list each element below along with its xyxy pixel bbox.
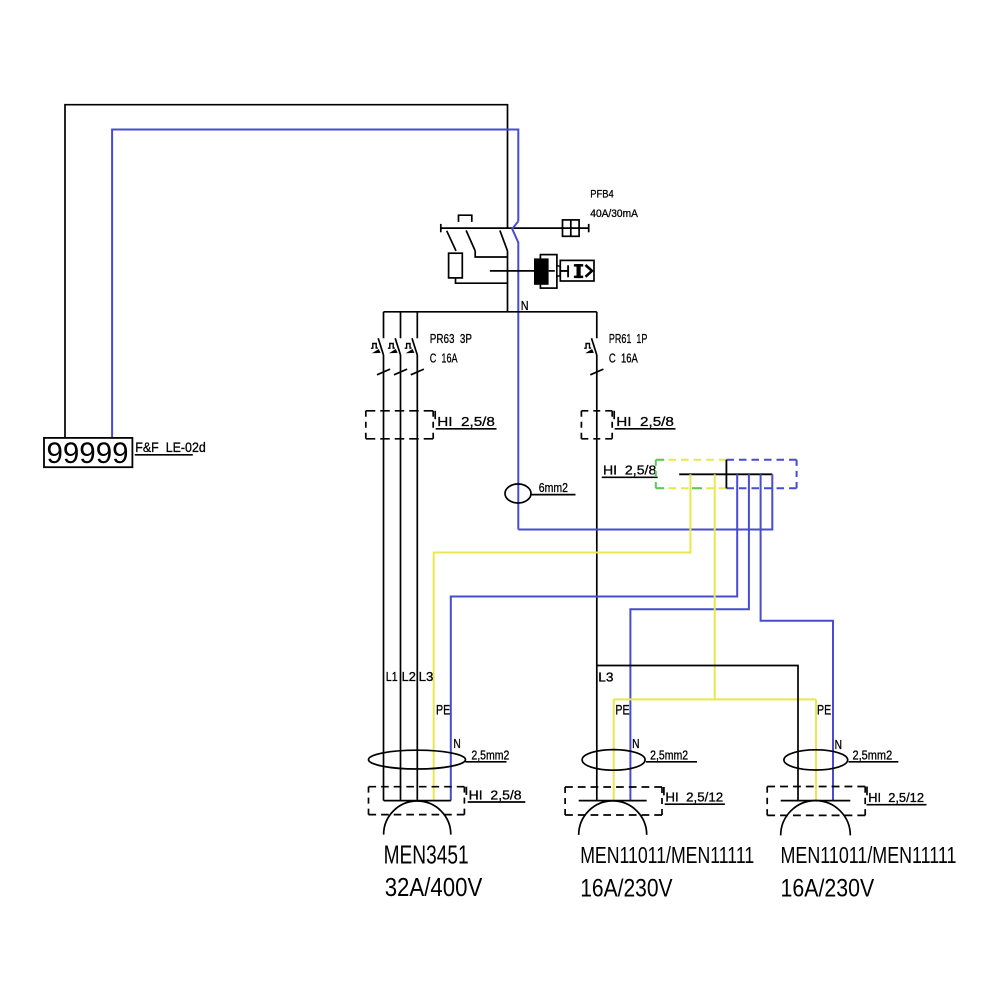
svg-text:MEN3451: MEN3451	[384, 839, 469, 869]
RCD L pole contact blade	[500, 230, 508, 251]
RCD Q1 linkage bar	[441, 227, 589, 229]
wire N to socket X6 (blue)	[630, 474, 749, 800]
breaker PR63 3P pole L3	[416, 312, 418, 339]
terminal strip X1 tick	[434, 411, 436, 419]
svg-text:PFB4: PFB4	[590, 188, 613, 200]
svg-text:HI 2,5/8: HI 2,5/8	[437, 414, 495, 429]
terminal strip busbar	[679, 473, 772, 475]
RCD test contact blade	[447, 231, 456, 251]
label HI 2,5/8 (X5) underline	[468, 801, 526, 803]
svg-text:16A/230V: 16A/230V	[580, 874, 673, 902]
RCD test resistor R	[449, 253, 463, 278]
cable marker 6mm2 ellipse	[505, 484, 531, 503]
svg-text:MEN11011/MEN11111: MEN11011/MEN11111	[781, 842, 957, 868]
RCD trip relay I> box	[560, 260, 594, 281]
label HI 2,5/8 (X2) underline	[615, 428, 676, 430]
cable marker 2,5mm2 ellipse (X7)	[784, 750, 848, 770]
svg-text:HI 2,5/12: HI 2,5/12	[665, 790, 723, 805]
wire L supply (meter to RCD, black)	[65, 105, 508, 438]
breaker PR63 3P pole L2	[400, 312, 402, 339]
wire distribution bus	[384, 311, 597, 313]
svg-text:C 16A: C 16A	[609, 351, 638, 366]
RCD test button bracket	[459, 215, 472, 222]
socket X6 terminal line	[579, 800, 647, 802]
terminal strip X2 tick	[613, 411, 615, 419]
wire CT to relay	[549, 270, 555, 272]
label 6mm2 leader underline	[531, 494, 576, 496]
wire PE to socket X5 (yellow)	[434, 474, 691, 800]
svg-text:F&F LE-02d: F&F LE-02d	[135, 439, 206, 455]
svg-text:N: N	[835, 737, 842, 752]
svg-text:HI 2,5/8: HI 2,5/8	[469, 787, 522, 802]
wire RCD L pole output	[507, 251, 509, 312]
svg-text:2,5mm2: 2,5mm2	[853, 748, 893, 763]
wire PE drop to socket X6 (yellow)	[613, 699, 615, 800]
socket X7 dashed box	[767, 786, 865, 788]
socket X7 tick	[866, 787, 868, 796]
wire N main to X4 (blue)	[518, 474, 772, 529]
RCD trip relay input tick	[560, 265, 568, 277]
RCD current transformer frame	[540, 255, 557, 289]
terminal strip X2 dashed box	[581, 410, 612, 412]
wire PE feed to sockets X6-X7 (yellow)	[714, 474, 716, 699]
energy meter P1 F&F LE-02d box	[44, 438, 132, 467]
wire PE drop to socket X7 (yellow)	[815, 699, 817, 800]
cable marker 2,5mm2 ellipse (X5)	[369, 750, 466, 769]
RCD trip relay > glyph	[586, 265, 593, 277]
RCD linkage bar left tick	[440, 224, 442, 232]
svg-text:PE: PE	[817, 703, 831, 718]
svg-text:N: N	[632, 736, 639, 751]
wire N to socket X5 (blue)	[451, 474, 737, 800]
wire L3 branch to socket X7	[597, 666, 798, 801]
wire to RCD current transformer	[490, 270, 534, 272]
socket X7 terminal line	[781, 800, 851, 802]
svg-text:HI 2,5/8: HI 2,5/8	[616, 414, 674, 429]
svg-text:PE: PE	[436, 703, 450, 718]
socket X5 terminal line	[384, 800, 451, 802]
wire pole-2 to N pole	[475, 251, 507, 257]
label HI 2,5/12 (X7) underline	[867, 804, 927, 806]
svg-text:PE: PE	[615, 703, 629, 718]
svg-text:MEN11011/MEN11111: MEN11011/MEN11111	[580, 842, 754, 868]
label 2,5mm2 leader (X7)	[849, 761, 899, 763]
RCD N pole blade (blue)	[512, 221, 518, 242]
svg-text:6mm2: 6mm2	[539, 480, 568, 495]
svg-text:L2: L2	[402, 669, 416, 684]
socket X5 outlet arc	[384, 801, 451, 835]
svg-text:32A/400V: 32A/400V	[385, 872, 483, 902]
label 2,5mm2 leader (X6)	[646, 761, 697, 763]
wire PE bus X6-X7 (yellow)	[614, 698, 816, 700]
svg-text:2,5mm2: 2,5mm2	[650, 748, 688, 763]
RCD current transformer core (filled)	[534, 258, 549, 284]
label 2,5mm2 leader (X5)	[466, 761, 507, 763]
wire RCD N pole down (blue)	[517, 242, 519, 530]
RCD trip relay I glyph	[574, 264, 583, 267]
svg-text:HI 2,5/8: HI 2,5/8	[603, 463, 656, 478]
breaker PR61 1P pole	[596, 312, 598, 339]
svg-text:N: N	[453, 736, 460, 751]
cable marker 2,5mm2 ellipse (X6)	[582, 750, 645, 771]
svg-text:HI 2,5/12: HI 2,5/12	[868, 790, 924, 805]
RCD auxiliary contact window	[563, 220, 580, 236]
socket X7 outlet arc	[781, 801, 851, 836]
svg-text:L3: L3	[419, 669, 434, 684]
terminal strip X1 dashed box	[366, 410, 433, 412]
svg-text:40A/30mA: 40A/30mA	[590, 208, 638, 220]
socket X5 dashed box	[369, 786, 465, 788]
socket X6 outlet arc	[579, 801, 647, 835]
label F&F LE-02d underline	[135, 454, 193, 456]
socket X6 tick	[663, 787, 665, 795]
svg-text:99999: 99999	[47, 437, 129, 470]
svg-text:16A/230V: 16A/230V	[781, 874, 875, 902]
RCD current transformer tab	[557, 266, 560, 276]
breaker PR63 3P pole L1	[383, 312, 385, 339]
label HI 2,5/8 (PE-N strip) underline	[602, 476, 658, 478]
wire test resistor to N pole	[456, 278, 508, 283]
svg-text:PR61 1P: PR61 1P	[609, 331, 648, 346]
socket X6 dashed box	[565, 786, 662, 788]
svg-text:L3: L3	[598, 670, 613, 685]
wire N supply (meter to RCD, blue)	[112, 130, 518, 439]
socket X5 tick	[465, 787, 467, 795]
svg-text:L1: L1	[386, 669, 398, 684]
svg-text:C 16A: C 16A	[430, 351, 458, 366]
svg-text:PR63 3P: PR63 3P	[430, 331, 472, 346]
terminal strip X4 N dashed box (blue)	[726, 459, 796, 461]
label HI 2,5/8 (X1) underline	[436, 428, 497, 430]
svg-text:2,5mm2: 2,5mm2	[471, 748, 509, 763]
terminal strip PE-N divider	[725, 460, 727, 488]
wire N to socket X7 (blue)	[761, 474, 833, 800]
RCD linkage bar right tick	[588, 224, 590, 232]
terminal strip X3 PE dashed box (green-yellow)	[656, 459, 727, 461]
RCD pole-2 contact blade	[466, 230, 475, 251]
label HI 2,5/12 (X6) underline	[665, 803, 725, 805]
